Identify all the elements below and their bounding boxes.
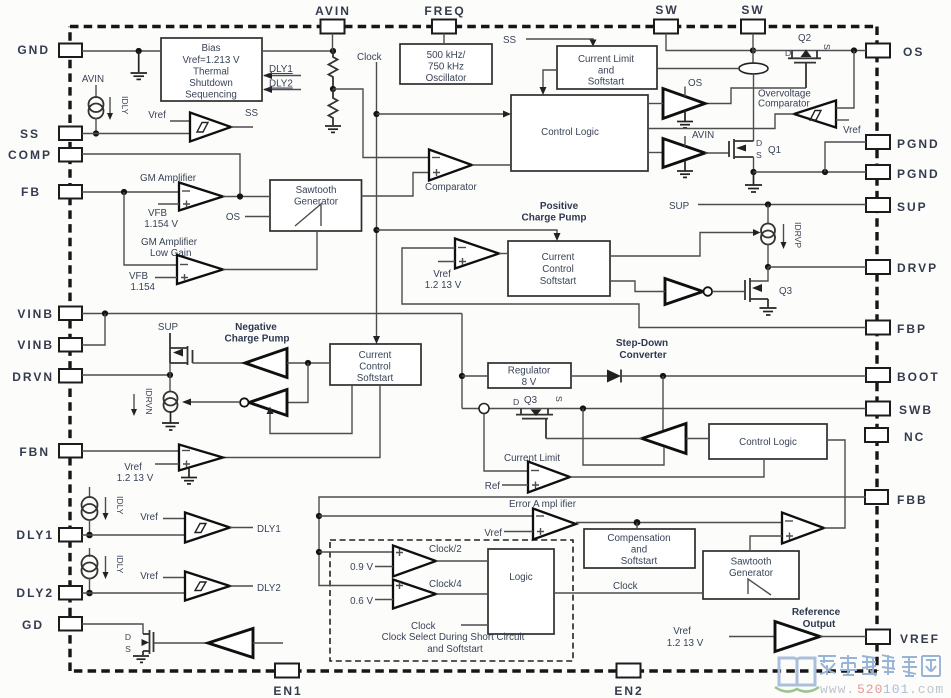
wire SS to Current Limit block with arrow (526, 39, 597, 47)
wire FBN amp output to CCS bottom (223, 385, 380, 458)
junction clock to positive pump (373, 227, 379, 233)
svg-text:VINB: VINB (17, 338, 54, 352)
pin COMP (8, 148, 82, 162)
wire PGND net to PGND lower pin (754, 171, 867, 173)
wire Regulator to diode (571, 375, 607, 377)
wire OS node to overvoltage comparator input (836, 51, 854, 109)
wire GD gate to buffer (154, 642, 209, 644)
wire clock to positive CCS with arrow (377, 230, 561, 241)
label VFB 1.154 V (144, 204, 179, 230)
wire gate driver output to Q3 gate (546, 438, 642, 440)
svg-text:AVIN: AVIN (315, 4, 351, 18)
label Vref (DLY2) (140, 571, 185, 582)
buffer reference output (775, 622, 820, 652)
wire GM output to sawtooth generator (223, 196, 270, 198)
junction regulator input (459, 373, 465, 379)
label IDLY arrow (DLY1) (103, 496, 126, 520)
wire DRVP node down to Q3 drain (750, 267, 768, 281)
svg-text:Control: Control (542, 264, 574, 275)
svg-text:S: S (554, 396, 564, 402)
wire SUP to current source IDRVP (767, 205, 769, 225)
wire FREQ pin to oscillator (443, 34, 445, 45)
svg-text:Vref: Vref (140, 571, 158, 582)
wire ellipse down to Q1 drain (753, 74, 755, 141)
svg-text:EN2: EN2 (614, 684, 643, 698)
svg-text:520: 520 (857, 682, 883, 697)
label OS (sawtooth input) (226, 212, 270, 223)
svg-text:SUP: SUP (158, 322, 179, 333)
label Vref (DLY1) (140, 512, 185, 523)
arrow body diode Q2 (801, 50, 812, 58)
node divider tap (330, 86, 336, 92)
svg-text:0.9 V: 0.9 V (350, 562, 373, 573)
wire VINB pins bus (82, 313, 462, 315)
wire SWB line (462, 408, 866, 410)
svg-text:OS: OS (226, 212, 241, 223)
svg-text:PGND: PGND (897, 137, 940, 151)
label VFB 1.154 (low gain) (129, 271, 177, 293)
svg-text:D: D (785, 48, 791, 58)
svg-text:BOOT: BOOT (897, 370, 940, 384)
svg-text:Bias: Bias (201, 43, 220, 54)
op-amp GM Amplifier Low Gain (177, 255, 223, 284)
wire clock/2 output to logic (436, 560, 488, 562)
schmitt trigger DLY2 (185, 572, 230, 601)
block Bias / Thermal Shutdown / Sequencing (161, 38, 262, 101)
svg-text:SS: SS (245, 108, 259, 119)
svg-text:AVIN: AVIN (692, 130, 714, 141)
svg-text:and Softstart: and Softstart (427, 644, 483, 655)
junction dot GND/ground tap (136, 48, 142, 54)
svg-text:Clock Select During Short Ci: Clock Select During Short Circuit (382, 632, 525, 643)
svg-text:S: S (822, 44, 832, 50)
pin DRVN (12, 369, 82, 384)
svg-text:.com: .com (909, 682, 944, 697)
watermark chinese text (818, 655, 940, 676)
ground below FBN amp (181, 468, 197, 484)
pin VREF (866, 630, 940, 647)
svg-text:AVIN: AVIN (82, 74, 104, 85)
svg-text:OS: OS (688, 78, 703, 89)
svg-text:0.6 V: 0.6 V (350, 596, 373, 607)
svg-text:Regulator: Regulator (508, 366, 551, 377)
svg-text:Current Limit: Current Limit (578, 54, 634, 65)
svg-text:1.154 V: 1.154 V (144, 219, 178, 230)
wire DRVN pin to net (82, 374, 170, 376)
pin PGND (upper) (866, 135, 940, 151)
label Vref 1.213 V (reference output) (667, 626, 704, 649)
pin DLY2 (16, 586, 82, 600)
wire Control Logic to gate driver (686, 438, 709, 440)
wire positive comparator output to CCS (499, 253, 508, 255)
svg-text:8 V: 8 V (522, 377, 537, 388)
svg-text:IDLY: IDLY (115, 555, 125, 574)
svg-text:Control Logic: Control Logic (739, 437, 797, 448)
svg-text:GM Amplifier: GM Amplifier (140, 173, 197, 184)
watermark url (820, 682, 944, 697)
svg-text:IDRVN: IDRVN (144, 388, 154, 415)
junction negative CCS input (305, 360, 311, 366)
svg-text:SWB: SWB (899, 403, 933, 417)
label 0.9 V (350, 562, 393, 573)
junction SUP node (765, 201, 771, 207)
transistor Q3 (step-down) (516, 409, 553, 439)
svg-text:Comparator: Comparator (758, 99, 810, 110)
svg-text:Generator: Generator (294, 197, 339, 208)
svg-text:DLY1: DLY1 (257, 524, 281, 535)
current source IDLY (DLY2) (82, 556, 98, 579)
wire SS pin to schmitt input (82, 133, 190, 135)
wire current source to DRVP node (767, 244, 769, 267)
ground below GD transistor (133, 656, 149, 662)
junction compensation node (634, 519, 641, 526)
pin AVIN (top) (315, 4, 351, 34)
current source IDLY (DLY1) (82, 497, 98, 520)
ground below divider (325, 126, 341, 132)
svg-text:OS: OS (903, 45, 924, 59)
junction SWB node (580, 405, 586, 411)
label Reference Output (792, 607, 841, 630)
pin SW (right) (741, 3, 765, 34)
wire to PGND upper pin (825, 142, 866, 172)
svg-text:500 kHz/: 500 kHz/ (427, 50, 466, 61)
svg-text:VINB: VINB (17, 307, 54, 321)
watermark book logo (779, 658, 815, 685)
svg-text:Sawtooth: Sawtooth (731, 557, 772, 568)
svg-text:Converter: Converter (619, 350, 666, 361)
pin FB (21, 185, 82, 199)
label IDRVN with arrow (131, 388, 154, 416)
wire comparator output to Control Logic (472, 164, 511, 166)
wire SWB sense loop to driver (583, 409, 664, 466)
svg-text:GM Amplifier: GM Amplifier (141, 237, 198, 248)
svg-text:NC: NC (904, 430, 925, 444)
wire sawtooth output to comparator (362, 173, 430, 197)
wire DLY2 output (230, 583, 281, 594)
svg-text:Logic: Logic (509, 572, 533, 583)
svg-text:Oscillator: Oscillator (426, 73, 468, 84)
junction PGND branch (822, 169, 828, 175)
buffer step-down gate driver (642, 424, 686, 454)
wire Q1 source to PGND net (753, 157, 755, 172)
dashed box Clock Select During Short Circuit and Softstart (330, 540, 573, 661)
transistor Q1 (729, 139, 754, 159)
svg-text:D: D (125, 632, 131, 642)
svg-text:FB: FB (21, 185, 41, 199)
wire FBB branch to error amplifier (319, 515, 533, 517)
svg-text:S: S (756, 150, 762, 160)
junction GM output node (237, 193, 243, 199)
comparator current limit (step-down) (528, 462, 570, 493)
pin NC (865, 428, 925, 444)
wire OS buffer output to Q2 gate (704, 88, 806, 104)
wire VINB lower pin link (82, 314, 105, 346)
wire PWM output to Control Logic (824, 440, 845, 528)
svg-text:Current: Current (359, 350, 392, 361)
buffer AVIN (Q1 gate driver) (663, 130, 714, 168)
label IDLY arrow (DLY2) (103, 555, 126, 579)
wire reference to VREF pin (820, 636, 866, 638)
wire inverter output to current source (arrow) (182, 399, 240, 406)
svg-text:IDRVP: IDRVP (793, 222, 803, 248)
transistor Q3 (positive pump) (745, 278, 768, 307)
wire clock vertical trunk (376, 62, 378, 336)
comparator clock/4 (393, 580, 436, 609)
pin FBB (865, 490, 928, 507)
label Ref (485, 481, 528, 492)
wire GND pin to Bias block (82, 50, 161, 52)
wire DRVN node down to current source (169, 363, 171, 392)
wire current source to DLY2 node (89, 578, 91, 593)
wire FBP feedback to comparator (402, 248, 866, 328)
svg-text:Vref: Vref (124, 462, 142, 473)
wire clock to Control Logic with arrow (377, 111, 512, 118)
wire Control Logic to AVIN buffer (648, 152, 663, 154)
svg-text:GD: GD (22, 618, 44, 632)
svg-text:Thermal: Thermal (193, 67, 229, 78)
svg-text:DLY2: DLY2 (257, 583, 281, 594)
svg-text:IDLY: IDLY (115, 496, 125, 515)
svg-text:1.2 13 V: 1.2 13 V (117, 473, 154, 484)
arrow Q3 body (752, 284, 762, 292)
junction SW node (750, 47, 756, 53)
inverter negative pump (240, 390, 287, 416)
transistor GD NMOS (143, 630, 154, 655)
comparator PWM (step-down) (782, 513, 824, 544)
comparator overvoltage (794, 101, 836, 128)
ground below OS buffer (677, 111, 693, 128)
buffer negative pump (245, 349, 287, 378)
svg-text:SW: SW (741, 3, 764, 17)
IC dashed boundary (70, 27, 877, 672)
wire DLY1 current source stub (89, 487, 91, 498)
pin DLY1 (16, 528, 82, 542)
wire inverter output to Q3 gate (712, 291, 745, 293)
svg-text:VFB: VFB (148, 208, 168, 219)
svg-text:FBP: FBP (897, 322, 927, 336)
block Control Logic (main) (511, 95, 648, 171)
svg-text:Output: Output (803, 619, 836, 630)
svg-text:101: 101 (883, 682, 909, 697)
svg-text:COMP: COMP (8, 148, 52, 162)
junction FB node (121, 189, 127, 195)
pin SUP (866, 198, 928, 214)
pin GND (17, 43, 82, 57)
ground below Q1 (745, 172, 762, 192)
wire current source to DLY1 node (89, 520, 91, 536)
schmitt trigger DLY1 (185, 513, 230, 543)
svg-text:D: D (513, 397, 519, 407)
svg-text:Softstart: Softstart (357, 373, 394, 384)
wire to Regulator (462, 375, 488, 377)
wire DRVP node to DRVP pin (768, 266, 866, 268)
wire Current Limit block to Control Logic (arrow down) (540, 70, 558, 95)
svg-text:Q3: Q3 (524, 395, 538, 406)
wire CCS output to current source control (arrow) (610, 229, 761, 256)
svg-text:Reference: Reference (792, 607, 841, 618)
junction FBB to error amp (316, 513, 322, 519)
ground below AVIN buffer (677, 160, 693, 177)
svg-text:DLY1: DLY1 (269, 64, 293, 75)
label GM Amplifier Low Gain (141, 237, 198, 259)
block Sawtooth Generator (step-down) (703, 551, 799, 599)
pin FBP (866, 321, 927, 337)
svg-text:Current: Current (542, 252, 575, 263)
arrow Q1 body (736, 145, 746, 152)
svg-text:Comparator: Comparator (425, 182, 477, 193)
block Logic (clock select) (488, 549, 554, 634)
wire GD buffer input (253, 642, 283, 644)
svg-text:DRVN: DRVN (12, 370, 54, 384)
schmitt trigger SS (190, 113, 231, 142)
wire diode to BOOT pin (621, 375, 866, 377)
svg-text:Step-Down: Step-Down (616, 338, 668, 349)
svg-text:Softstart: Softstart (588, 77, 625, 88)
svg-text:Clock: Clock (613, 581, 638, 592)
wire Bias to AVIN node (262, 50, 333, 52)
junction SS node (93, 130, 99, 136)
svg-text:EN1: EN1 (273, 684, 302, 698)
resistor R1 (upper divider) (329, 51, 338, 89)
svg-text:www.: www. (820, 682, 855, 697)
svg-text:SS: SS (20, 127, 40, 141)
svg-text:Vref: Vref (843, 125, 861, 136)
ground below IDRVN (162, 412, 179, 431)
junction VINB node (102, 310, 108, 316)
current source IDLY (soft start) (89, 97, 104, 119)
wire Current Limit block to sense ellipse (657, 68, 739, 70)
wire SW1 pin down and over (666, 34, 753, 51)
svg-text:Vref: Vref (433, 269, 451, 280)
svg-text:DLY2: DLY2 (16, 586, 54, 600)
svg-text:Charge Pump: Charge Pump (224, 334, 289, 345)
svg-text:Q1: Q1 (768, 145, 781, 156)
transistor Q2 (788, 51, 821, 89)
svg-text:Control Logic: Control Logic (541, 127, 599, 138)
wire SW2 pin down to sense ellipse (752, 34, 754, 64)
svg-text:Vref: Vref (484, 528, 502, 539)
wire divider tap to comparator inverting input (333, 89, 429, 158)
wire BOOT node down to gate driver (662, 376, 664, 431)
wire FBN pin to amplifier (82, 450, 179, 452)
svg-text:Vref: Vref (673, 626, 691, 637)
svg-text:1.154: 1.154 (130, 282, 155, 293)
junction DRVP node (765, 264, 771, 270)
label Positive Charge Pump (521, 201, 586, 224)
junction BOOT node (660, 373, 666, 379)
block Current Control Softstart (positive pump) (508, 241, 610, 296)
svg-text:Positive: Positive (540, 201, 579, 212)
pin VINB (upper) (17, 307, 82, 322)
wire low gain GM output to sawtooth bottom (223, 231, 317, 270)
pin EN2 (bottom) (614, 664, 643, 698)
wire FBB pin feedback bus (319, 497, 866, 586)
svg-text:Vref: Vref (148, 110, 166, 121)
svg-text:Vref=1.213 V: Vref=1.213 V (182, 55, 240, 66)
wire VINB branch to step-down input (461, 314, 463, 409)
op-amp FBN (179, 445, 223, 471)
wire AVIN current source stub (82, 74, 104, 98)
wire buffer input node (287, 362, 330, 364)
label 0.6 V (350, 596, 393, 607)
svg-text:D: D (756, 138, 762, 148)
block Regulator 8 V (488, 363, 571, 388)
label Overvoltage Comparator (758, 89, 811, 110)
wire PMOS gate to buffer (193, 362, 246, 364)
svg-text:1.2 13 V: 1.2 13 V (667, 638, 704, 649)
svg-text:and: and (631, 545, 647, 556)
current sense ellipse (739, 63, 768, 74)
arrow clock into negative CCS (373, 336, 380, 344)
svg-text:Shutdown: Shutdown (189, 78, 233, 89)
pin SWB (866, 402, 933, 418)
svg-text:S: S (125, 644, 131, 654)
label IDRVP with arrow (781, 222, 804, 249)
transistor negative pump PMOS (170, 333, 193, 365)
svg-text:DRVP: DRVP (897, 261, 938, 275)
wire sawtooth to PWM comparator (750, 536, 782, 551)
wire FBB branch to clock/2 comparator (319, 551, 393, 553)
junction DLY1 node (86, 532, 93, 539)
wire CCS control to inverter (arrow up) (267, 385, 353, 434)
block Sawtooth Generator (top) (270, 180, 362, 231)
svg-text:Clock/2: Clock/2 (429, 544, 462, 555)
resistor R2 (lower divider) (329, 89, 338, 125)
label IDLY with arrow (soft start) (107, 96, 130, 120)
pin SS (20, 127, 82, 142)
arrow Q3 step-down body (531, 410, 542, 417)
svg-text:SUP: SUP (669, 201, 690, 212)
ground symbol below GND wire (131, 51, 148, 79)
svg-text:SW: SW (655, 3, 678, 17)
current source IDRVP (761, 224, 775, 245)
current source IDRVN (164, 392, 178, 413)
wire CCS to inverter input (610, 281, 665, 292)
wire DLY1 output (230, 524, 281, 535)
svg-text:Ref: Ref (485, 481, 501, 492)
watermark book base (775, 687, 819, 692)
diode (boot) (607, 370, 621, 383)
comparator positive pump (455, 239, 499, 269)
wire GD pin to transistor (82, 624, 143, 634)
pin SW (left) (654, 3, 679, 34)
wire clock/4 output to logic (436, 593, 488, 595)
wire FB pin to GM amplifier (82, 191, 179, 193)
block Current Control Softstart (negative pump) (330, 344, 421, 385)
svg-text:PGND: PGND (897, 167, 940, 181)
wire error amp output to PWM comparator (576, 522, 782, 524)
pin FBN (19, 444, 82, 459)
wire AVIN buffer to Q1 gate (705, 152, 729, 154)
wire DLY2 pin to schmitt (82, 592, 185, 594)
sense circle SWB (479, 404, 489, 414)
buffer OS (gate driver) (663, 78, 705, 119)
svg-text:Softstart: Softstart (540, 276, 577, 287)
wire DLY1 into Bias (arrow) (263, 64, 301, 79)
label Negative Charge Pump (224, 322, 289, 345)
junction PGND node (750, 169, 756, 175)
svg-text:Compensation: Compensation (607, 533, 670, 544)
pin FREQ (top) (424, 4, 465, 34)
pin PGND (lower) (866, 165, 940, 181)
svg-text:Generator: Generator (729, 568, 774, 579)
svg-text:1.2 13 V: 1.2 13 V (425, 280, 462, 291)
junction OS node (851, 47, 857, 53)
block Compensation and Softstart (584, 529, 695, 568)
svg-text:GND: GND (17, 43, 50, 57)
svg-text:Q3: Q3 (779, 286, 793, 297)
pin OS (866, 44, 924, 60)
